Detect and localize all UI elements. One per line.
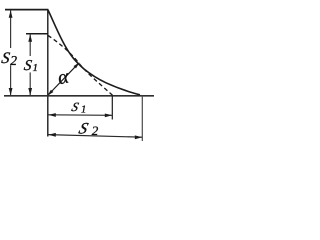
- label s2: [77, 119, 99, 138]
- S2 bottom arrowhead: [9, 88, 13, 96]
- s2 dimension line: [48, 135, 142, 138]
- s2 right arrowhead: [135, 135, 143, 139]
- s2 left arrowhead: [48, 133, 56, 137]
- S1 bottom arrowhead: [28, 88, 32, 96]
- S2 top arrowhead: [9, 10, 13, 18]
- label s1: [70, 100, 86, 115]
- svg-text:2: 2: [92, 123, 99, 138]
- s1 right extension line: [111, 96, 113, 120]
- s2 right extension line: [141, 96, 143, 142]
- label S1: [23, 58, 38, 74]
- S2 dimension line upper segment: [10, 10, 12, 48]
- top extension line: [5, 9, 48, 11]
- alpha arrow upper arrowhead: [74, 62, 80, 68]
- svg-text:2: 2: [10, 53, 17, 68]
- alpha angle arrow shaft: [49, 64, 79, 95]
- svg-text:1: 1: [33, 62, 39, 74]
- S1 dimension line lower segment: [29, 72, 31, 95]
- dashed curve: [48, 36, 113, 96]
- svg-text:1: 1: [81, 105, 86, 116]
- S1 top arrowhead: [28, 34, 32, 42]
- s1 dimension line: [48, 114, 112, 117]
- S1 dimension line upper segment: [29, 34, 31, 56]
- S2 dimension line lower segment: [10, 65, 12, 95]
- baseline: [4, 95, 154, 97]
- S1 extension line: [26, 33, 48, 35]
- label S2: [0, 50, 17, 68]
- solid curve: [48, 10, 140, 95]
- axis vertical line: [47, 9, 49, 136]
- s1 right arrowhead: [105, 114, 113, 118]
- alpha arrow lower arrowhead: [47, 90, 53, 96]
- s1 left arrowhead: [48, 113, 56, 117]
